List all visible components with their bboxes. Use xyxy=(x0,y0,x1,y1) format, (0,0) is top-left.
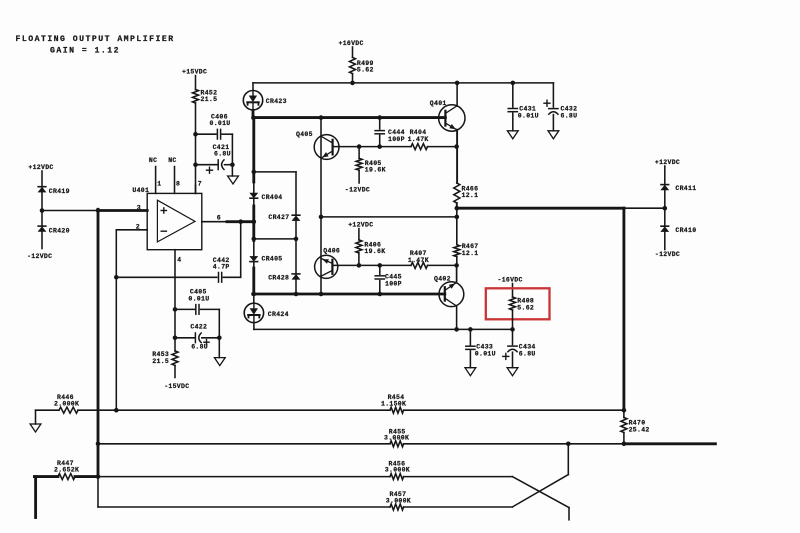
node rail/R499 xyxy=(350,81,355,86)
svg-text:100P: 100P xyxy=(385,280,402,287)
ground R446 xyxy=(30,410,41,432)
svg-text:CR424: CR424 xyxy=(268,311,289,318)
svg-text:12.1: 12.1 xyxy=(462,192,479,199)
wire crossover riser xyxy=(567,444,569,475)
svg-text:5.62: 5.62 xyxy=(517,304,534,311)
node bus/Q405 xyxy=(319,115,324,120)
wire column to CR405 xyxy=(253,241,255,257)
wire output right xyxy=(624,442,716,445)
power -12VDC left xyxy=(27,253,52,260)
wire R466 to node xyxy=(456,203,458,208)
pin 8 xyxy=(168,157,180,193)
svg-text:CR420: CR420 xyxy=(49,228,70,235)
svg-text:6.8U: 6.8U xyxy=(214,151,231,158)
diode CR411 xyxy=(661,185,696,193)
node Q405/Q406 emitters xyxy=(319,215,324,220)
wire +16V rail xyxy=(253,82,553,84)
svg-text:0.01U: 0.01U xyxy=(188,295,209,302)
wire emitter row xyxy=(321,216,457,218)
svg-text:-12VDC: -12VDC xyxy=(27,253,52,260)
wire R467 to Q402 xyxy=(456,265,458,282)
svg-text:1: 1 xyxy=(157,181,161,188)
pin 3 xyxy=(137,204,141,211)
wire row2 left xyxy=(98,443,390,445)
node bus/C444 xyxy=(377,115,382,120)
diode CR427 xyxy=(268,214,299,221)
pin 2 wire xyxy=(116,224,147,411)
capacitor C442 xyxy=(213,257,230,282)
node R408/C434 xyxy=(510,327,515,332)
node row1/pin2 column xyxy=(114,408,119,413)
node R452/C406 xyxy=(193,132,198,137)
resistor R405 xyxy=(356,147,386,183)
node rail/CR424 xyxy=(252,292,257,297)
svg-text:+12VDC: +12VDC xyxy=(28,164,53,171)
power +15VDC xyxy=(182,69,207,90)
diode CR410 xyxy=(661,226,696,234)
wire left column xyxy=(97,209,100,477)
capacitor C445 xyxy=(375,265,402,294)
node base row/R405 xyxy=(357,144,362,149)
node row2/crossover xyxy=(566,442,571,447)
svg-text:5.62: 5.62 xyxy=(357,66,374,73)
power +12VDC right xyxy=(655,159,680,185)
wire base bus bottom xyxy=(253,293,445,296)
node emitter row right xyxy=(455,215,460,220)
power +16VDC xyxy=(339,40,364,57)
capacitor C431 xyxy=(508,83,539,131)
wire row1 left xyxy=(78,409,116,411)
wire row3 diagonal xyxy=(512,477,569,508)
node base row/R467 xyxy=(454,263,459,268)
svg-text:0.01U: 0.01U xyxy=(475,350,496,357)
wire R408 down xyxy=(512,310,514,329)
svg-text:CR428: CR428 xyxy=(268,275,289,282)
diode CR428 xyxy=(268,274,300,282)
transistor Q401 xyxy=(430,100,465,131)
ground C433 xyxy=(465,368,476,376)
svg-text:0.01U: 0.01U xyxy=(210,120,231,127)
wire rail to CR424 xyxy=(253,294,255,303)
wire Q406 base row xyxy=(332,264,456,266)
svg-text:19.6K: 19.6K xyxy=(364,248,385,255)
capacitor C421 xyxy=(196,144,233,173)
resistor R457 xyxy=(386,491,411,510)
capacitor C422 xyxy=(175,324,219,351)
wire C432 stub xyxy=(552,83,554,107)
svg-text:2.652K: 2.652K xyxy=(54,467,79,474)
wire row4 diagonal xyxy=(512,475,568,507)
ground C434 xyxy=(507,368,518,376)
wire node to CR420 xyxy=(41,211,43,227)
wire R447 lead right xyxy=(75,475,98,478)
diode CR404 xyxy=(250,193,283,201)
wire row3 xyxy=(98,476,390,478)
node pin4/C422 xyxy=(173,336,178,341)
wire CR424 down xyxy=(253,323,255,329)
node CR411/CR410 xyxy=(663,206,668,211)
resistor R452 xyxy=(193,90,218,104)
wire CR427 to link xyxy=(295,221,297,239)
node output/column xyxy=(252,219,257,224)
node base row/C444 xyxy=(377,144,382,149)
node C421 left xyxy=(193,162,198,167)
node output/C442 xyxy=(238,219,243,224)
wire row4 riser xyxy=(97,477,99,507)
node right column/row1 xyxy=(622,408,627,413)
transistor Q406 xyxy=(315,248,341,279)
power -12VDC center xyxy=(345,187,370,194)
ground C432 xyxy=(548,131,559,139)
svg-text:NC: NC xyxy=(149,157,157,164)
wire right column xyxy=(622,208,625,410)
wire C442 to output xyxy=(223,222,240,278)
capacitor C406 xyxy=(198,114,233,139)
svg-text:-12VDC: -12VDC xyxy=(655,251,680,258)
wire rail to CR423 xyxy=(252,83,254,90)
diode CR420 xyxy=(38,226,70,234)
highlight box xyxy=(486,288,550,319)
wire CR419 to node xyxy=(41,192,43,210)
resistor R454 xyxy=(381,394,406,413)
pin 1 xyxy=(149,157,162,193)
node base row/R406 xyxy=(357,263,362,268)
svg-text:0.01U: 0.01U xyxy=(518,112,539,119)
wire column upper xyxy=(252,118,255,193)
svg-text:+15VDC: +15VDC xyxy=(182,69,207,76)
diode CR419 xyxy=(38,187,70,195)
wire CR411 to node xyxy=(664,190,666,208)
wire clamp row thick xyxy=(457,207,624,210)
transistor Q405 xyxy=(296,131,339,159)
svg-text:6.8U: 6.8U xyxy=(519,350,536,357)
node left column tee xyxy=(96,208,101,213)
svg-text:GAIN = 1.12: GAIN = 1.12 xyxy=(50,46,120,55)
wire R499 to rail xyxy=(352,74,354,83)
node link right xyxy=(294,237,299,242)
wire Q401 collector xyxy=(456,83,458,106)
diode CR405 xyxy=(250,255,283,262)
svg-text:1.47K: 1.47K xyxy=(408,257,429,264)
node C421 right xyxy=(230,162,235,167)
wire CR428 to rail xyxy=(295,280,297,294)
svg-text:7: 7 xyxy=(198,181,202,188)
wire row1 xyxy=(116,409,390,411)
pin 6 output wire xyxy=(202,214,254,221)
wire row4 xyxy=(98,506,390,508)
svg-text:8: 8 xyxy=(176,181,180,188)
diode CR423 xyxy=(243,91,287,110)
node feedback tee xyxy=(114,275,119,280)
node C433 row xyxy=(468,327,473,332)
svg-text:Q401: Q401 xyxy=(430,100,447,107)
resistor R406 xyxy=(356,240,386,266)
pin 7 xyxy=(196,181,203,194)
wire Q402 collector xyxy=(456,306,458,329)
resistor R455 xyxy=(384,428,409,446)
power +12VDC center xyxy=(348,222,373,240)
svg-text:6: 6 xyxy=(217,214,221,221)
svg-text:Q402: Q402 xyxy=(434,275,451,282)
svg-text:CR404: CR404 xyxy=(262,194,283,201)
wire row2 right xyxy=(404,443,624,445)
wire Q406 column xyxy=(320,217,322,294)
svg-text:NC: NC xyxy=(168,157,176,164)
ground C422 xyxy=(214,338,225,366)
svg-text:21.5: 21.5 xyxy=(201,96,218,103)
resistor R446 xyxy=(54,394,79,413)
wire collector row xyxy=(254,328,513,330)
wire row4 right xyxy=(404,506,513,508)
node Q402 collector row xyxy=(454,327,459,332)
wire clamp row thin xyxy=(624,207,665,209)
op-amp U401 xyxy=(132,187,201,250)
capacitor C405 xyxy=(175,289,219,315)
resistor R499 xyxy=(350,57,374,73)
node CR428/rail xyxy=(294,292,299,297)
wire CR423 to bus xyxy=(251,110,256,119)
svg-text:-15VDC: -15VDC xyxy=(164,383,189,390)
wire CR404 to output node xyxy=(253,199,255,241)
svg-text:CR419: CR419 xyxy=(49,188,70,195)
svg-text:25.42: 25.42 xyxy=(629,426,650,433)
wire C405 corner xyxy=(218,309,220,337)
capacitor C433 xyxy=(466,329,496,367)
diode CR424 xyxy=(244,303,289,322)
svg-text:CR410: CR410 xyxy=(675,227,696,234)
power -15VDC xyxy=(164,383,189,390)
svg-text:U401: U401 xyxy=(132,187,149,194)
node rail/Q406 xyxy=(319,292,324,297)
wire output left stub xyxy=(34,477,37,518)
svg-text:1.150K: 1.150K xyxy=(381,400,406,407)
svg-text:FLOATING OUTPUT AMPLIFIER: FLOATING OUTPUT AMPLIFIER xyxy=(16,35,175,44)
wire node to CR410 xyxy=(664,208,666,226)
svg-text:-12VDC: -12VDC xyxy=(345,187,370,194)
wire row3 stub xyxy=(568,508,570,520)
capacitor C434 xyxy=(503,329,536,367)
resistor R453 xyxy=(152,351,178,366)
wire CR420 down xyxy=(41,232,43,249)
resistor R466 xyxy=(454,183,479,203)
capacitor C432 xyxy=(544,100,577,131)
svg-text:CR411: CR411 xyxy=(675,185,696,192)
wire Q401 emitter xyxy=(456,130,458,183)
wire C406 to C421 xyxy=(231,134,233,165)
power +12VDC left xyxy=(28,164,53,187)
svg-text:+12VDC: +12VDC xyxy=(348,222,373,229)
svg-text:21.5: 21.5 xyxy=(152,358,169,365)
node CR419/CR420 xyxy=(40,208,45,213)
resistor R467 xyxy=(454,217,479,266)
svg-text:-16VDC: -16VDC xyxy=(498,277,523,284)
svg-text:6.8U: 6.8U xyxy=(561,112,578,119)
svg-text:CR427: CR427 xyxy=(268,214,289,221)
wire Q405 column xyxy=(320,118,322,217)
svg-text:Q405: Q405 xyxy=(296,131,313,138)
resistor R408 xyxy=(510,297,535,311)
node row2 start xyxy=(96,442,101,447)
wire Q405 base row xyxy=(333,146,457,148)
node base row/Q401emitter xyxy=(454,144,459,149)
svg-text:3.000K: 3.000K xyxy=(384,434,409,441)
wire R447 lead left xyxy=(34,475,58,478)
wire R466 node down xyxy=(456,208,458,217)
wire R453 down xyxy=(174,365,176,377)
node base row/C445 xyxy=(378,263,383,268)
wire link row xyxy=(254,238,296,240)
resistor R470 xyxy=(621,410,650,444)
node R466 bottom xyxy=(455,206,460,211)
svg-text:3: 3 xyxy=(137,204,141,211)
svg-text:+16VDC: +16VDC xyxy=(339,40,364,47)
wire R446 lead xyxy=(36,409,60,411)
svg-text:3.000K: 3.000K xyxy=(385,466,410,473)
wire base bus top xyxy=(253,116,445,119)
pin 4 wire xyxy=(175,250,182,351)
svg-text:12.1: 12.1 xyxy=(462,250,479,257)
power -12VDC right xyxy=(655,251,680,258)
node column link xyxy=(252,170,257,175)
resistor R456 xyxy=(385,460,410,479)
svg-text:Q406: Q406 xyxy=(323,248,340,255)
svg-text:CR423: CR423 xyxy=(266,98,287,105)
wire CR405 to rail xyxy=(253,262,255,294)
power -16VDC xyxy=(498,277,523,298)
wire CR427 column upper xyxy=(295,172,297,215)
node rail/C445 xyxy=(378,292,383,297)
node link left xyxy=(252,237,257,242)
svg-text:CR405: CR405 xyxy=(262,255,283,262)
resistor R407 xyxy=(408,250,429,268)
resistor R404 xyxy=(408,129,429,149)
node R447/left column xyxy=(96,474,101,479)
wire link to CR428 xyxy=(295,239,297,274)
wire row3 right xyxy=(404,476,513,478)
svg-text:100P: 100P xyxy=(388,136,405,143)
svg-text:C422: C422 xyxy=(190,324,207,331)
transistor Q402 xyxy=(434,275,464,306)
title text xyxy=(16,35,175,55)
ground C431 xyxy=(507,131,518,139)
wire feedback row xyxy=(116,276,217,278)
wire column link top xyxy=(254,171,296,173)
wire CR410 down xyxy=(664,232,666,250)
ground C421 xyxy=(228,165,239,184)
node pin4/C405 xyxy=(173,307,178,312)
wire R452 to pin 7 xyxy=(195,103,197,193)
capacitor C444 xyxy=(375,118,405,147)
svg-text:6.8U: 6.8U xyxy=(191,344,208,351)
svg-text:1.47K: 1.47K xyxy=(408,136,429,143)
node rail/C431 xyxy=(511,81,516,86)
svg-text:4.7P: 4.7P xyxy=(213,264,230,271)
node C422 right xyxy=(217,336,222,341)
wire row1 right xyxy=(404,409,624,411)
node right column/row2 xyxy=(622,442,627,447)
svg-text:3.000K: 3.000K xyxy=(386,497,411,504)
svg-text:4: 4 xyxy=(177,256,181,263)
svg-text:19.6K: 19.6K xyxy=(365,166,386,173)
svg-text:2.000K: 2.000K xyxy=(54,401,79,408)
svg-text:+12VDC: +12VDC xyxy=(655,159,680,166)
wire input bus xyxy=(42,210,147,212)
node rail/Q401 xyxy=(455,81,460,86)
resistor R447 xyxy=(54,460,79,480)
